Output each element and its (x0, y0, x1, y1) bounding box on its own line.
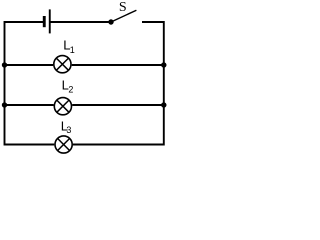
wire: bottom branch left (to L3) (5, 144, 55, 146)
svg-text:1: 1 (70, 45, 75, 55)
wire: L1 branch left (5, 64, 54, 66)
lamp L1 (54, 56, 71, 73)
svg-text:S: S (119, 0, 127, 15)
wire: left vertical bus (4, 21, 6, 146)
node: junction left of L1 (2, 62, 7, 67)
label L2 (62, 78, 74, 95)
wire: L1 branch right (72, 64, 164, 66)
lamp L3 (55, 136, 72, 153)
node: junction left of L2 (2, 102, 7, 107)
wire: bottom branch right (from L3) (73, 144, 164, 146)
battery (43, 9, 51, 33)
label L3 (61, 119, 72, 135)
svg-text:3: 3 (66, 125, 71, 135)
wire: battery to switch (50, 21, 111, 23)
node: junction right of L2 (161, 102, 166, 107)
lamp L2 (54, 98, 71, 115)
node: junction right of L1 (161, 62, 166, 67)
wire: top-left horizontal (corner to battery) (5, 21, 44, 23)
wire: L2 branch right (72, 104, 164, 106)
wire: switch to top-right corner (142, 21, 164, 23)
svg-text:2: 2 (68, 85, 73, 95)
switch S (open blade) (108, 10, 136, 24)
wire: right vertical bus (163, 21, 165, 146)
wire: L2 branch left (5, 104, 54, 106)
label L1 (63, 37, 75, 55)
